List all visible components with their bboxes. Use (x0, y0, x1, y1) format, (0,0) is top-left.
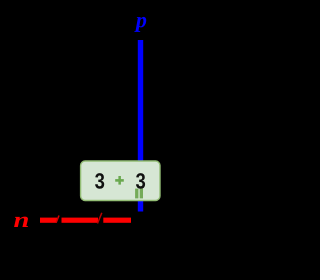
first 3 (95, 173, 104, 189)
plus sign vertical bar (118, 176, 121, 185)
label n (14, 217, 28, 227)
second 3 (136, 173, 145, 189)
double tick below second 3 (135, 189, 138, 199)
line n segment 1 (red) (40, 218, 57, 223)
label p (134, 17, 146, 32)
line p (blue vertical) (138, 40, 143, 212)
plus sign horizontal bar (115, 179, 124, 182)
line n tick 2 (98, 213, 102, 224)
line n segment 3 (red) (103, 218, 131, 223)
line n tick 1 (56, 216, 59, 223)
expression box (81, 161, 160, 201)
line n segment 2 (red) (62, 218, 99, 223)
